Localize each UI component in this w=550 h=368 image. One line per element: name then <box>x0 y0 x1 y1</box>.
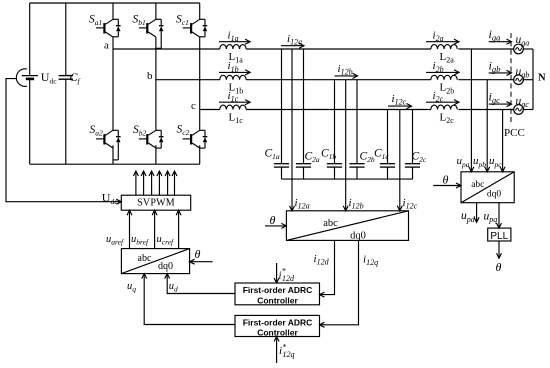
svg-text:c: c <box>191 100 196 112</box>
svg-text:SVPWM: SVPWM <box>137 197 175 208</box>
capacitor C2c <box>405 110 427 180</box>
wire upq out <box>484 203 502 228</box>
wire leg a <box>112 3 114 164</box>
current arrow i2a <box>426 30 459 45</box>
wire upa tap <box>469 49 474 172</box>
wire dc top bus <box>30 2 200 4</box>
current arrow i1c <box>219 90 250 105</box>
wire i12d <box>314 240 335 297</box>
current arrow igc <box>489 90 512 107</box>
block PLL <box>488 228 511 242</box>
wire ubref <box>131 210 157 248</box>
inductor L2a <box>431 45 457 65</box>
svg-text:First-order ADRC: First-order ADRC <box>243 317 313 327</box>
block abc-dq0 pcc <box>461 172 514 203</box>
svg-text:PLL: PLL <box>490 231 508 242</box>
capacitor C1c <box>374 110 395 180</box>
current arrow iga <box>489 27 512 44</box>
node N <box>538 73 546 84</box>
wire capacitor common bus <box>282 178 413 180</box>
transistor Sa1 <box>89 14 121 38</box>
wire ud <box>165 274 235 294</box>
wire theta out <box>496 241 502 274</box>
dc source Udc <box>16 3 57 164</box>
svg-text:N: N <box>538 73 546 84</box>
svg-text:dq0: dq0 <box>158 261 173 272</box>
inductor L2b <box>431 75 457 95</box>
block abc-dq0 i12 <box>286 211 408 242</box>
label upc <box>489 155 502 169</box>
svg-text:abc: abc <box>138 253 152 264</box>
block First-order ADRC Controller d <box>235 283 320 305</box>
transistor Sc1 <box>176 14 207 38</box>
block SVPWM <box>121 195 190 210</box>
label upb <box>473 155 486 169</box>
wire phase a <box>113 48 514 50</box>
current arrow igb <box>489 58 512 75</box>
current arrow i1a <box>219 30 250 45</box>
wire uaref <box>106 210 132 248</box>
wire ucref <box>157 210 182 248</box>
wire theta to i12 dq0 <box>265 213 286 228</box>
block First-order ADRC Controller q <box>235 315 320 337</box>
inductor L1c <box>220 105 246 125</box>
transistor Sb2 <box>133 124 164 148</box>
wire i12q ref <box>274 337 294 364</box>
ac source ugb <box>514 66 533 85</box>
svg-text:Controller: Controller <box>257 295 298 305</box>
inductor L2c <box>431 105 457 125</box>
label i12c sense <box>403 197 418 211</box>
transistor Sc2 <box>177 123 208 148</box>
block abc-dq0 uref <box>121 249 189 274</box>
label i12b sense <box>349 197 364 211</box>
wire phase b <box>156 79 514 81</box>
current arrow i12c <box>388 93 412 109</box>
wire theta to uref dq0 <box>190 247 213 264</box>
wire i12b sense <box>343 80 348 211</box>
node c <box>191 100 196 112</box>
wire leg b <box>155 3 157 164</box>
capacitor C2a <box>296 49 320 179</box>
svg-text:b: b <box>147 70 153 82</box>
capacitor C2b <box>349 80 375 179</box>
wire feedback Udc to SVPWM <box>6 79 121 206</box>
wire uq <box>127 274 235 325</box>
node b <box>147 70 153 82</box>
label PCC <box>504 127 525 139</box>
current arrow i1b <box>219 60 250 75</box>
node a <box>104 39 109 51</box>
svg-text:dq0: dq0 <box>350 230 366 241</box>
svg-text:a: a <box>104 39 109 51</box>
label i12a sense <box>295 197 310 211</box>
svg-text:abc: abc <box>323 218 338 229</box>
current arrow i12b <box>335 63 358 79</box>
svg-text:θ: θ <box>270 213 276 227</box>
inductor L1b <box>220 75 246 95</box>
wire upb tap <box>485 80 490 172</box>
current arrow i2c <box>426 90 459 105</box>
wire phase c <box>200 109 514 111</box>
wire i12a sense <box>290 49 295 211</box>
svg-text:First-order ADRC: First-order ADRC <box>243 285 313 295</box>
label upa <box>457 155 470 169</box>
wire i12c sense <box>397 110 402 211</box>
capacitor C1a <box>265 49 290 179</box>
capacitor Cf <box>59 3 81 164</box>
transistor Sa2 <box>90 124 121 160</box>
svg-text:abc: abc <box>471 180 484 190</box>
svg-text:θ: θ <box>496 260 502 274</box>
inductor L1a <box>220 45 246 65</box>
wire i12q <box>320 240 379 327</box>
svg-text:dq0: dq0 <box>487 190 502 200</box>
current arrow i12a <box>281 33 304 48</box>
capacitor C1b <box>321 80 342 179</box>
wire upc tap <box>500 110 505 172</box>
svg-text:θ: θ <box>443 173 449 187</box>
svg-text:Controller: Controller <box>257 327 298 337</box>
svg-text:PCC: PCC <box>504 127 525 139</box>
current arrow i2b <box>426 60 459 75</box>
wire theta to pcc dq0 <box>433 173 461 189</box>
transistor Sb1 <box>133 14 164 49</box>
wire i12d ref <box>274 263 295 283</box>
ac source uga <box>514 34 533 54</box>
ac source ugc <box>514 95 533 114</box>
svg-text:θ: θ <box>195 247 201 261</box>
wire neutral bus <box>532 49 534 110</box>
wire gate signals <box>133 171 177 195</box>
wire upd out <box>461 203 479 224</box>
wire leg c <box>199 3 201 164</box>
wire dc bottom bus <box>30 163 200 165</box>
PCC dashed line <box>510 33 512 125</box>
